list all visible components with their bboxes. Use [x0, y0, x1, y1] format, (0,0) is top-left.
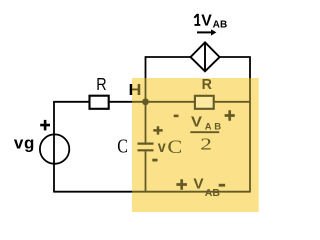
dependent source U1 diamond — [191, 42, 220, 71]
wire: stub from dependent source right to right rail — [220, 56, 251, 58]
capacitor C plates — [138, 144, 154, 151]
polarity + of bottom VAB — [176, 179, 187, 190]
voltage source vg — [40, 134, 69, 163]
label vg — [14, 133, 35, 152]
wire: bottom horizontal — [53, 191, 250, 193]
svg-text:vg: vg — [14, 133, 35, 152]
wire: capacitor branch from node H to bottom — [145, 102, 147, 192]
wire: stub from dependent source left down to node H — [146, 57, 191, 102]
wire: top horizontal from vg to right rail — [54, 101, 250, 103]
polarity + of source vg — [40, 120, 50, 130]
label bottom VAB — [193, 176, 220, 199]
polarity + of VAB/2 — [225, 110, 235, 120]
polarity - of bottom VAB — [219, 184, 225, 187]
label vC — [158, 137, 182, 157]
node H junction dot — [142, 98, 149, 105]
resistor R2 (right) — [195, 96, 214, 109]
svg-text:AB: AB — [213, 20, 228, 31]
polarity - of VAB/2 — [174, 115, 179, 118]
current direction arrow — [197, 29, 216, 35]
label 1VAB of dependent source — [194, 12, 227, 30]
label R of resistor R2 — [202, 77, 213, 93]
svg-text:C: C — [117, 135, 128, 157]
wire: left vertical through source vg — [53, 101, 55, 192]
wire: right vertical rail — [249, 57, 251, 193]
highlight overlay region — [132, 78, 259, 212]
polarity - of vC — [152, 159, 157, 162]
label H — [129, 81, 142, 99]
highlight region base — [132, 78, 259, 212]
resistor R1 (left) — [90, 96, 109, 109]
polarity + of vC — [153, 126, 162, 134]
label R of resistor R1 — [96, 74, 106, 94]
label C of capacitor — [117, 135, 128, 157]
svg-text:R: R — [96, 74, 106, 94]
svg-text:V: V — [201, 12, 212, 29]
label VAB/2 fraction — [190, 114, 223, 154]
